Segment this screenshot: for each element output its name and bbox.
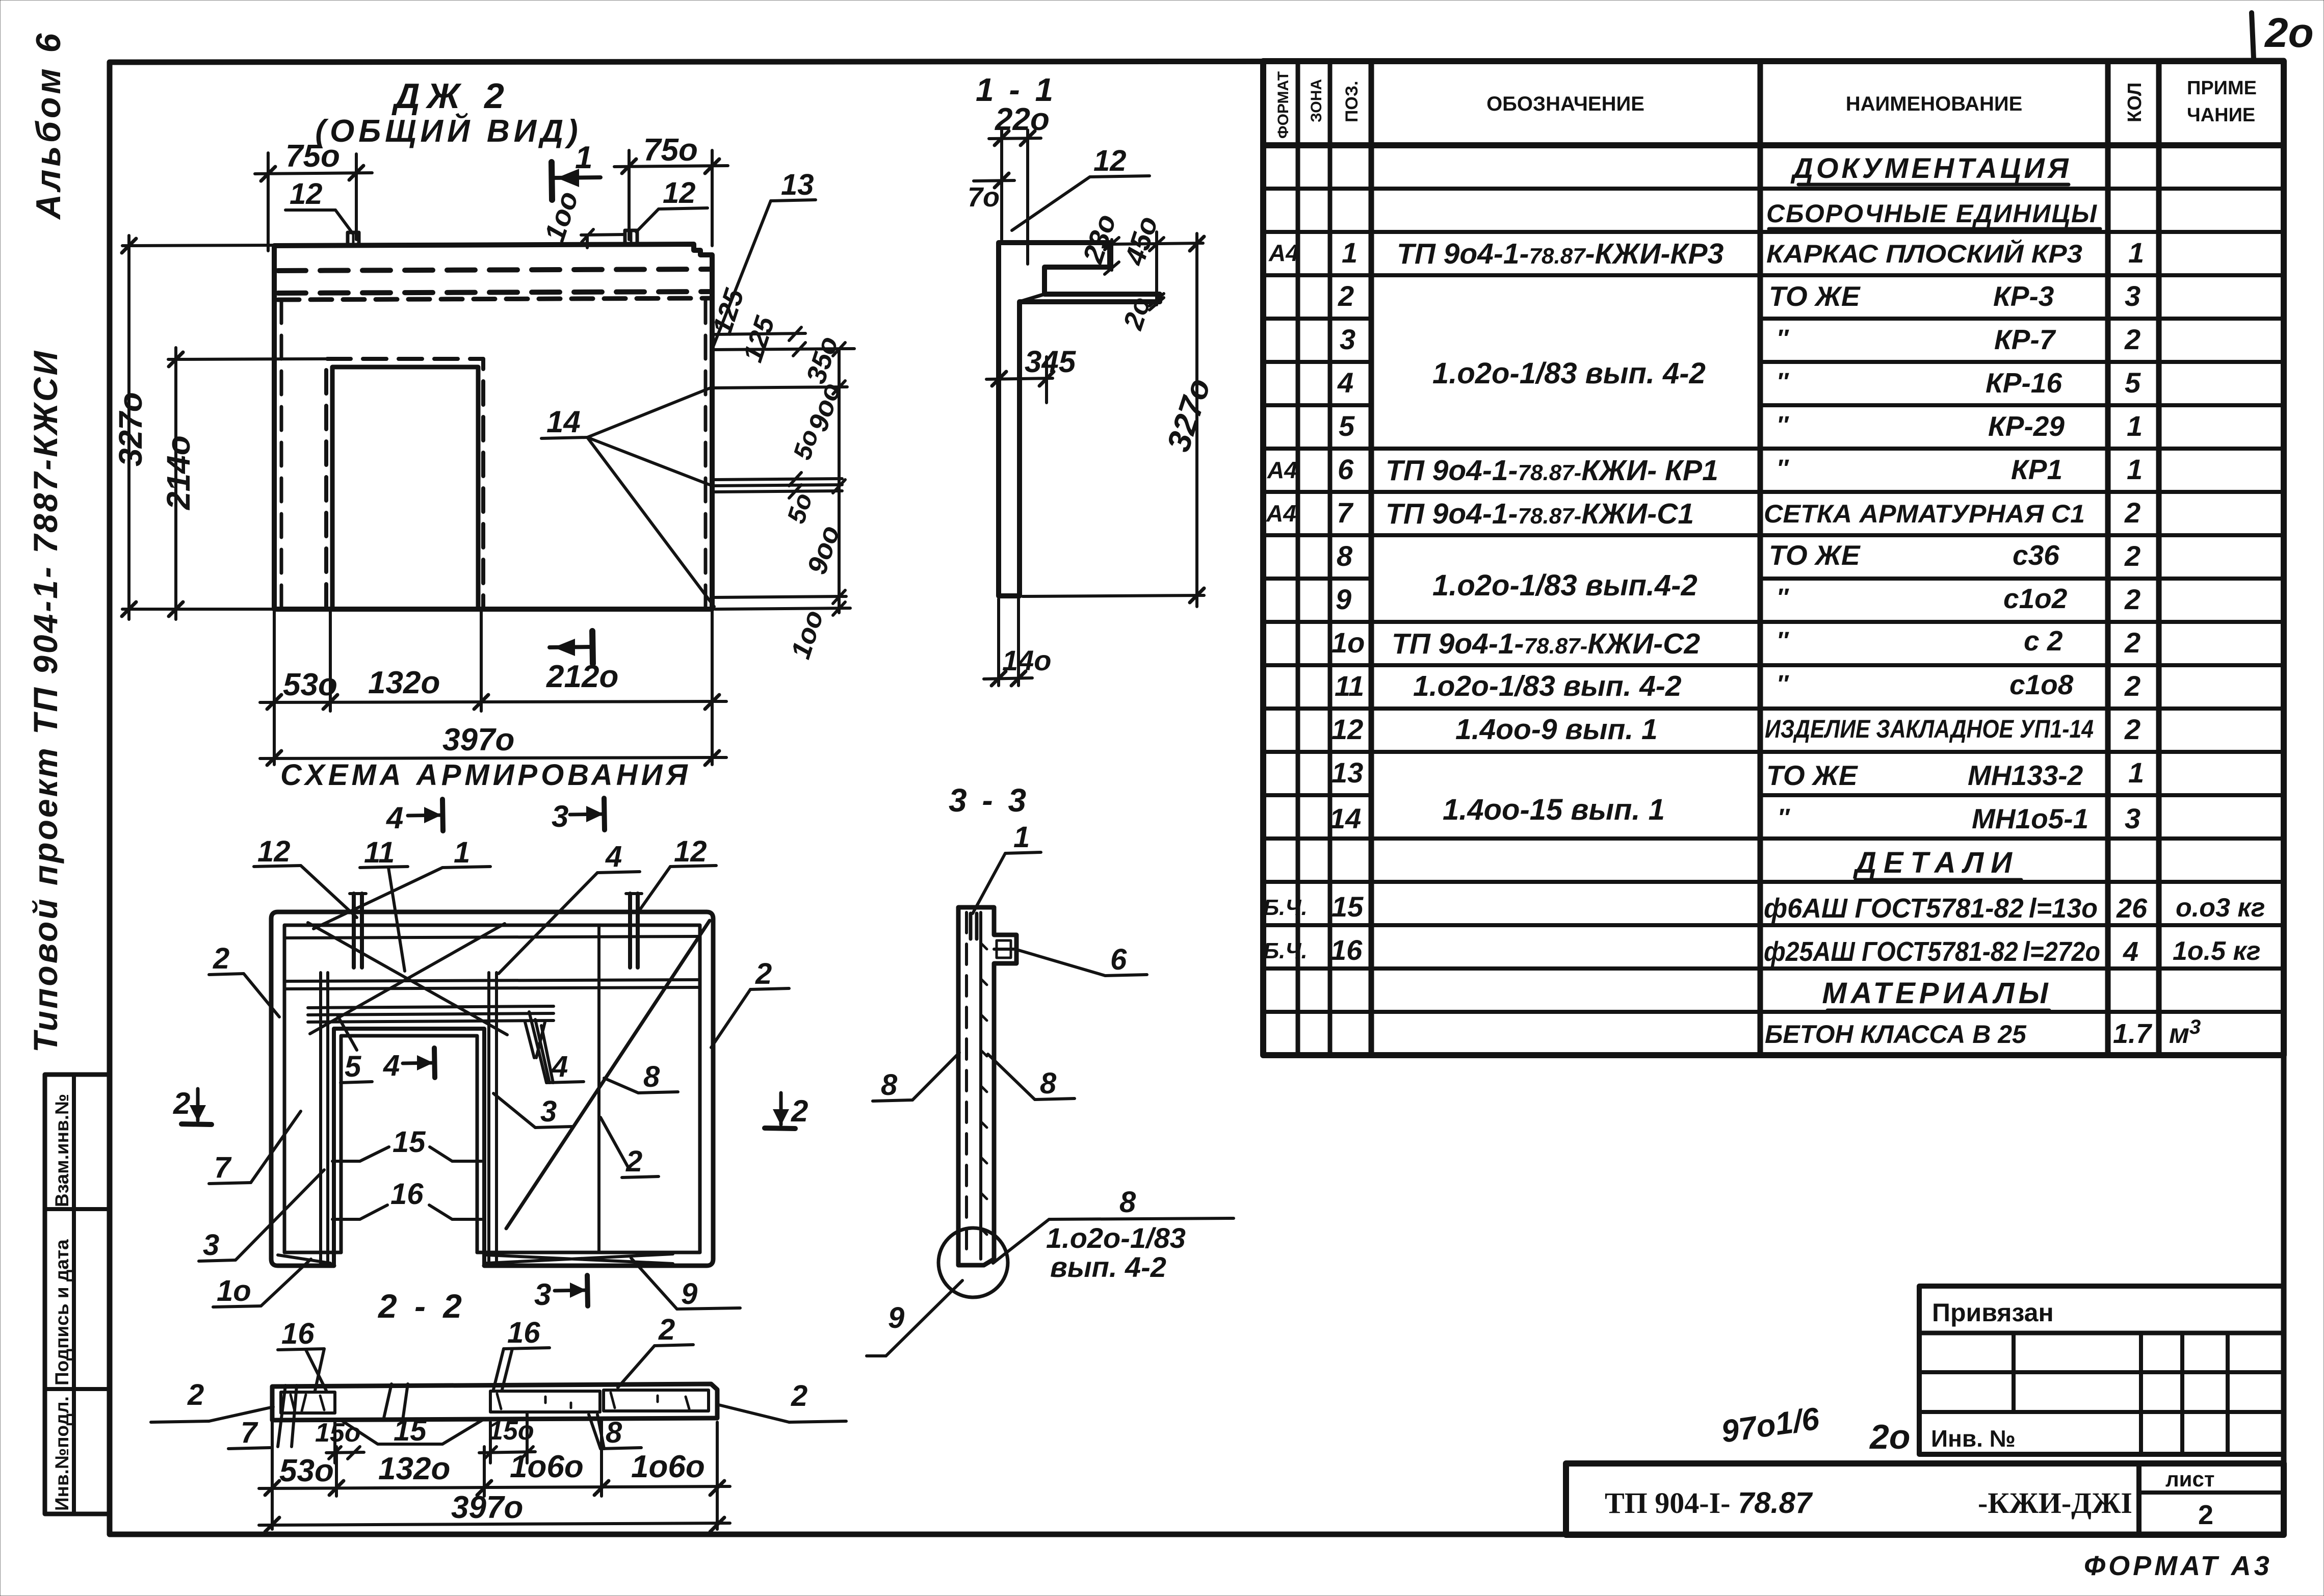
label 12 right (636, 176, 708, 232)
1-1 dim 230 rotated (1076, 210, 1122, 274)
svg-text:75о: 75о (285, 139, 340, 174)
svg-text:2: 2 (2124, 540, 2140, 572)
svg-text:ПОЗ.: ПОЗ. (1342, 81, 1362, 122)
scheme label 7 (209, 1111, 301, 1184)
panel side hidden lines (281, 300, 706, 608)
svg-text:2: 2 (625, 1145, 642, 1178)
svg-text:КР-7: КР-7 (1994, 324, 2056, 355)
svg-text:7: 7 (1337, 496, 1354, 529)
svg-text:5: 5 (2125, 367, 2141, 399)
svg-text:ЧАНИЕ: ЧАНИЕ (2187, 104, 2255, 126)
svg-text:12: 12 (674, 835, 707, 868)
section mark 4 (inside door) (383, 1048, 435, 1082)
svg-text:ТП 9о4-1-78.87-КЖИ- КР1: ТП 9о4-1-78.87-КЖИ- КР1 (1386, 454, 1718, 487)
формат А3 (2084, 1551, 2273, 1581)
svg-text:11: 11 (364, 836, 395, 869)
table section heading: Сборочные единицы (1766, 199, 2100, 229)
svg-text:15о: 15о (315, 1418, 361, 1448)
svg-text:26: 26 (2116, 893, 2148, 924)
svg-text:1о: 1о (1331, 626, 1365, 659)
svg-text:2: 2 (2124, 713, 2140, 745)
svg-text:3: 3 (1340, 323, 1355, 355)
2-2 dim 3970 (259, 1490, 730, 1532)
svg-text:22о: 22о (995, 102, 1050, 137)
svg-text:16: 16 (281, 1317, 315, 1350)
svg-text:ТО ЖЕ: ТО ЖЕ (1769, 539, 1861, 571)
table section heading: Материалы (1822, 977, 2052, 1010)
left margin stamp box (45, 1075, 110, 1514)
svg-text:Альбом 6: Альбом 6 (29, 31, 68, 220)
svg-text:1о: 1о (217, 1274, 251, 1307)
table row 14 + merged cell (1329, 793, 2140, 834)
dim 100 rotated (embed offset) (538, 188, 625, 248)
svg-text:ф25АШ ГОСТ5781-82 l=272о: ф25АШ ГОСТ5781-82 l=272о (1764, 936, 2100, 967)
svg-text:1оо: 1оо (538, 188, 584, 246)
svg-text:12: 12 (1093, 144, 1127, 177)
svg-text:2: 2 (187, 1378, 204, 1411)
svg-text:КОЛ: КОЛ (2124, 83, 2146, 122)
svg-text:14: 14 (1329, 802, 1361, 834)
GV dim 3970 (260, 722, 726, 765)
2-2 dims 530/1320/1060/1060 (259, 1421, 730, 1529)
scheme label 4 top right (499, 840, 640, 974)
scheme embed 12 right (626, 894, 642, 967)
svg-text:ПРИМЕ: ПРИМЕ (2187, 77, 2257, 99)
svg-text:2: 2 (213, 942, 229, 975)
привязан box (1919, 1286, 2284, 1454)
table row 16 (1263, 934, 2261, 967)
scheme label 1 (314, 836, 490, 929)
svg-text:ЗОНА: ЗОНА (1308, 79, 1325, 122)
svg-text:132о: 132о (378, 1451, 450, 1486)
svg-text:А4: А4 (1268, 240, 1299, 266)
table row 8 (1337, 539, 2140, 572)
svg-text:с1о2: с1о2 (2003, 583, 2068, 614)
section mark 3 (top) (552, 798, 605, 833)
2-2 bar outline (272, 1384, 717, 1420)
table row 10 (1331, 625, 2140, 660)
dim 2140 vertical (160, 348, 329, 619)
2-2 label 8 (589, 1415, 641, 1449)
svg-text:1.о2о-1/83 вып. 4-2: 1.о2о-1/83 вып. 4-2 (1432, 357, 1706, 390)
svg-text:с 2: с 2 (2024, 625, 2063, 657)
table row 5 (1339, 410, 2143, 442)
svg-text:м3: м3 (2169, 1016, 2201, 1049)
1-1 dim 450 rotated (1113, 212, 1203, 310)
section mark 1 (bottom) (550, 631, 593, 664)
svg-text:″: ″ (1777, 671, 1789, 698)
section mark 4 (top) (386, 799, 443, 835)
svg-text:ТО ЖЕ: ТО ЖЕ (1766, 760, 1859, 791)
svg-text:Привязан: Привязан (1932, 1298, 2054, 1327)
svg-text:″: ″ (1777, 412, 1789, 439)
svg-text:1: 1 (2127, 410, 2143, 442)
right side tick lines 125/125 (707, 285, 854, 387)
svg-text:МАТЕРИАЛЫ: МАТЕРИАЛЫ (1822, 977, 2052, 1010)
table row: бетон (1765, 1016, 2201, 1049)
svg-text:1.о2о-1/83: 1.о2о-1/83 (1046, 1222, 1186, 1254)
scheme label 3 left bottom (199, 1170, 324, 1262)
svg-text:МН1о5-1: МН1о5-1 (1972, 803, 2088, 834)
svg-text:5о: 5о (781, 490, 818, 527)
svg-text:ИЗДЕЛИЕ ЗАКЛАДНОЕ УП1-14: ИЗДЕЛИЕ ЗАКЛАДНОЕ УП1-14 (1765, 715, 2094, 743)
2-2 label 7 (228, 1385, 297, 1449)
3-3 embed 6 detail (994, 940, 1016, 958)
3-3 label 8 right (988, 1054, 1075, 1100)
svg-text:ТО ЖЕ: ТО ЖЕ (1769, 280, 1861, 312)
scheme label 3 right of door (493, 1093, 572, 1128)
svg-text:КР-16: КР-16 (1986, 367, 2062, 399)
embed item 12 left (top) (348, 232, 359, 245)
scheme bottom strip diagonals right (487, 1254, 673, 1264)
svg-text:СЕТКА АРМАТУРНАЯ С1: СЕТКА АРМАТУРНАЯ С1 (1764, 500, 2085, 528)
svg-text:15: 15 (393, 1126, 426, 1159)
svg-text:о.о3 кг: о.о3 кг (2176, 893, 2265, 923)
svg-text:8: 8 (606, 1416, 622, 1449)
2-2 label 16 mid above (493, 1316, 550, 1390)
svg-text:ДОКУМЕНТАЦИЯ: ДОКУМЕНТАЦИЯ (1790, 152, 2071, 184)
svg-text:5о: 5о (788, 426, 824, 463)
scheme embed 12 left (350, 894, 366, 967)
dim 750 left (255, 139, 372, 251)
svg-text:ФОРМАТ А3: ФОРМАТ А3 (2084, 1551, 2273, 1581)
right side 50/50 cluster (714, 426, 842, 527)
table row 11 (1335, 669, 2140, 702)
scheme title (280, 758, 691, 792)
svg-text:6: 6 (1338, 453, 1354, 485)
section 1-1 body (999, 243, 1160, 596)
scheme inner contour (284, 925, 700, 1252)
svg-text:2: 2 (2124, 626, 2140, 659)
svg-text:ТП 904-I- 78.87: ТП 904-I- 78.87 (1605, 1486, 1813, 1520)
3-3 label 8 left (873, 1053, 959, 1102)
svg-text:Инв. №: Инв. № (1931, 1425, 2016, 1452)
svg-text:4: 4 (605, 840, 622, 873)
3-3 body (958, 907, 1016, 1265)
scheme label 12 left (254, 835, 357, 918)
svg-text:3 - 3: 3 - 3 (949, 782, 1029, 819)
svg-text:″: ″ (1777, 584, 1789, 611)
svg-text:15: 15 (394, 1414, 427, 1447)
svg-text:НАИМЕНОВАНИЕ: НАИМЕНОВАНИЕ (1846, 93, 2023, 115)
table row 4 + merged cell 1.020-1/83 вып.4-2 (1337, 357, 2141, 399)
svg-text:8: 8 (1040, 1067, 1057, 1100)
scheme crossing leaders top-left (308, 923, 507, 1035)
svg-text:КР1: КР1 (2011, 454, 2062, 485)
svg-text:СХЕМА АРМИРОВАНИЯ: СХЕМА АРМИРОВАНИЯ (280, 758, 691, 792)
2-2 left frame box (281, 1392, 335, 1413)
table row 13 (1331, 756, 2144, 791)
scheme label 12 right (637, 835, 716, 913)
svg-text:8: 8 (643, 1060, 660, 1093)
svg-text:2 - 2: 2 - 2 (377, 1287, 466, 1325)
svg-text:16: 16 (507, 1316, 540, 1349)
svg-text:345: 345 (1025, 345, 1077, 379)
svg-text:397о: 397о (451, 1490, 523, 1525)
2-2 middle frame box (490, 1391, 600, 1412)
svg-text:132о: 132о (368, 665, 440, 700)
section mark 1 (top) (552, 140, 600, 200)
3-3 top frame ticks (971, 913, 977, 939)
2-2 label 2 above (618, 1313, 693, 1388)
table row 12 (1331, 713, 2140, 746)
svg-text:″: ″ (1777, 325, 1789, 352)
svg-text:ДЕТАЛИ: ДЕТАЛИ (1852, 846, 2019, 879)
page number 20 top right (2252, 10, 2314, 59)
svg-text:КР-3: КР-3 (1993, 280, 2054, 312)
svg-text:16: 16 (390, 1178, 424, 1211)
svg-text:3: 3 (540, 1095, 557, 1128)
svg-text:″: ″ (1777, 627, 1789, 655)
svg-text:1: 1 (2127, 453, 2143, 485)
1-1 dim 220 (989, 102, 1050, 264)
1-1 dim 3270 (1023, 233, 1217, 607)
svg-text:-КЖИ-ДЖI: -КЖИ-ДЖI (1978, 1486, 2132, 1520)
2-2 label 16 left above (278, 1317, 326, 1391)
svg-text:ТП 9о4-1-78.87-КЖИ-С2: ТП 9о4-1-78.87-КЖИ-С2 (1392, 627, 1700, 660)
scheme label 4 right of door (529, 1012, 584, 1083)
svg-text:14: 14 (546, 405, 581, 439)
svg-text:1о6о: 1о6о (631, 1449, 705, 1484)
table row 7 (1266, 496, 2140, 530)
svg-text:12: 12 (1331, 713, 1363, 745)
svg-text:Инв.№подл.: Инв.№подл. (51, 1396, 72, 1511)
door opening hidden contour (326, 359, 483, 608)
table header labels (1275, 71, 2257, 139)
handwritten 20 (1869, 1418, 1910, 1456)
svg-text:125: 125 (737, 312, 780, 366)
svg-text:2: 2 (2124, 496, 2140, 529)
left margin vertical text: Альбом 6 (29, 31, 68, 220)
svg-text:9: 9 (888, 1301, 904, 1335)
svg-text:2: 2 (1338, 280, 1354, 312)
svg-text:7о: 7о (968, 182, 1000, 213)
scheme label 5 (337, 1015, 372, 1083)
svg-text:2: 2 (173, 1086, 190, 1120)
svg-text:ОБОЗНАЧЕНИЕ: ОБОЗНАЧЕНИЕ (1486, 93, 1644, 115)
svg-text:14о: 14о (1002, 644, 1052, 676)
svg-text:4: 4 (1337, 367, 1353, 399)
svg-text:А4: А4 (1266, 500, 1296, 527)
scheme label 11 (360, 836, 408, 971)
right side vertical dim line 350/900/900/100 (714, 349, 847, 615)
svg-text:4: 4 (2123, 936, 2138, 967)
dim 3270 vertical (112, 236, 278, 619)
2-2 label 2 far right (719, 1379, 846, 1422)
svg-text:5: 5 (345, 1050, 361, 1083)
svg-text:лист: лист (2165, 1467, 2214, 1491)
section 1-1 title (976, 71, 1056, 108)
svg-text:″: ″ (1777, 455, 1789, 482)
svg-text:ТП 9о4-1-78.87-КЖИ-С1: ТП 9о4-1-78.87-КЖИ-С1 (1386, 498, 1694, 530)
svg-text:КАРКАС ПЛОСКИЙ КР3: КАРКАС ПЛОСКИЙ КР3 (1766, 239, 2082, 268)
svg-text:1: 1 (1342, 237, 1357, 269)
svg-text:212о: 212о (546, 659, 618, 694)
svg-text:23о: 23о (1076, 210, 1122, 267)
scheme door contour (334, 1029, 484, 1266)
svg-text:МН133-2: МН133-2 (1968, 760, 2083, 791)
table row 9 + merged cell (1336, 569, 2140, 615)
embed item 12 right (top) (625, 230, 637, 244)
svg-text:вып. 4-2: вып. 4-2 (1050, 1251, 1166, 1283)
2-2 label 15 (383, 1384, 427, 1447)
section mark 3 (bottom) (534, 1275, 588, 1312)
3-3 callout 8 / 1.020-1/83 вып.4-2 (993, 1186, 1234, 1283)
table grid (1263, 61, 2284, 1055)
svg-text:Подпись и дата: Подпись и дата (51, 1239, 72, 1385)
svg-text:3: 3 (2125, 280, 2140, 312)
scheme label 10 (213, 1259, 311, 1307)
main title bar (1566, 1463, 2284, 1535)
svg-text:214о: 214о (160, 435, 197, 510)
svg-text:1оо: 1оо (785, 607, 829, 663)
2-2 label 2 far left (151, 1378, 273, 1422)
svg-text:3: 3 (534, 1277, 551, 1312)
1-1 dim 20 rotated (1117, 293, 1164, 333)
svg-text:6: 6 (1110, 943, 1127, 976)
label 14 with leaders (541, 387, 714, 607)
svg-text:2: 2 (2198, 1500, 2213, 1530)
svg-text:8: 8 (881, 1068, 898, 1102)
section 3-3 title (949, 782, 1029, 819)
section mark 2 (right) (765, 1093, 808, 1129)
GV bottom dims 530/1320/2120 (260, 612, 726, 765)
scheme label 9 (631, 1258, 740, 1311)
svg-text:12: 12 (257, 835, 291, 868)
scheme label 16 with V leader (332, 1178, 482, 1219)
svg-text:8: 8 (1119, 1186, 1136, 1219)
label 12 left (285, 177, 353, 233)
label 13 (713, 168, 816, 347)
left margin vertical text: Типовой проект (27, 349, 64, 1053)
1-1 label 12 (1012, 144, 1150, 230)
svg-text:13: 13 (781, 168, 814, 201)
table row 6 (1267, 453, 2143, 487)
svg-text:75о: 75о (643, 133, 698, 168)
svg-text:ТП 9о4-1-78.87-КЖИ-КР3: ТП 9о4-1-78.87-КЖИ-КР3 (1397, 238, 1724, 270)
2-2 door notch trapezoid (341, 1420, 482, 1444)
svg-text:Типовой проект ТП 904-1- 788: Типовой проект ТП 904-1- 7887-КЖСИ (27, 349, 64, 1053)
svg-text:53о: 53о (283, 667, 337, 702)
svg-text:ф6АШ ГОСТ5781-82 l=13о: ф6АШ ГОСТ5781-82 l=13о (1764, 893, 2098, 924)
right side 900/100 bottom (714, 522, 850, 663)
section 2-2 title (377, 1287, 466, 1325)
svg-text:12: 12 (663, 176, 696, 210)
dim 750 right (614, 133, 728, 246)
svg-text:1: 1 (2128, 756, 2144, 789)
scheme lintel bars above door (308, 1006, 554, 1058)
svg-text:1: 1 (454, 836, 470, 869)
svg-text:11: 11 (1335, 670, 1364, 702)
svg-text:4: 4 (386, 801, 403, 835)
svg-text:(ОБЩИЙ ВИД): (ОБЩИЙ ВИД) (315, 113, 582, 149)
svg-text:″: ″ (1777, 369, 1789, 396)
svg-text:1о.5 кг: 1о.5 кг (2173, 936, 2261, 966)
svg-text:1: 1 (575, 140, 592, 175)
svg-text:1.о2о-1/83 вып. 4-2: 1.о2о-1/83 вып. 4-2 (1413, 670, 1682, 702)
table row 1 (1268, 237, 2144, 270)
svg-text:1.о2о-1/83 вып.4-2: 1.о2о-1/83 вып.4-2 (1432, 569, 1698, 602)
scheme label 15 with V leader (332, 1126, 482, 1161)
table section heading: Документация (1790, 152, 2071, 185)
svg-text:97о1/6: 97о1/6 (1719, 1401, 1821, 1450)
svg-text:53о: 53о (279, 1453, 334, 1488)
panel cap hidden lines (278, 269, 712, 300)
svg-text:8: 8 (1337, 540, 1353, 572)
3-3 label 6 (1019, 943, 1147, 976)
1-1 dim 140 (984, 599, 1052, 686)
2-2 right frame box (604, 1390, 709, 1411)
scheme top band bars (284, 936, 700, 989)
table row 2 (1338, 280, 2140, 312)
svg-text:16: 16 (1330, 934, 1363, 966)
3-3 label 1 (973, 821, 1041, 913)
scheme label 2 left (209, 942, 279, 1017)
scheme door edge bars right (489, 973, 497, 1263)
scheme label 2 right (711, 957, 789, 1048)
svg-text:Взам.инв.№: Взам.инв.№ (51, 1094, 72, 1207)
svg-text:А4: А4 (1267, 457, 1297, 483)
door opening solid contour (332, 367, 478, 609)
svg-text:9: 9 (681, 1277, 697, 1311)
svg-text:1.7: 1.7 (2113, 1018, 2153, 1049)
3-3 bottom circle (938, 1228, 1008, 1297)
2-2 dim 150 right (479, 1412, 535, 1463)
svg-text:327о: 327о (112, 392, 149, 466)
3-3 label 9 (867, 1280, 962, 1356)
svg-text:9: 9 (1336, 583, 1351, 615)
svg-text:3: 3 (552, 799, 568, 833)
svg-text:2: 2 (2124, 323, 2140, 355)
svg-text:2: 2 (2124, 670, 2140, 702)
svg-text:1: 1 (1013, 821, 1030, 854)
svg-text:2: 2 (791, 1379, 807, 1412)
svg-text:1о6о: 1о6о (510, 1449, 584, 1484)
svg-text:ДЖ 2: ДЖ 2 (391, 76, 511, 116)
scheme label 2 mid right (600, 1117, 659, 1178)
section mark 2 (left) (173, 1086, 212, 1124)
svg-text:327о: 327о (1160, 374, 1218, 456)
scheme door edge bars left (321, 973, 328, 1263)
scheme big diagonal (item 8) (506, 921, 710, 1228)
3-3 inner mesh dashed (967, 912, 987, 1259)
svg-text:1: 1 (2128, 237, 2144, 269)
svg-text:БЕТОН КЛАССА В 25: БЕТОН КЛАССА В 25 (1765, 1020, 2027, 1049)
svg-text:3: 3 (203, 1228, 219, 1262)
1-1 dim 345 (986, 345, 1077, 403)
svg-text:Б.Ч.: Б.Ч. (1263, 895, 1308, 920)
table row 3 (1340, 323, 2140, 355)
svg-text:2: 2 (755, 957, 772, 990)
svg-text:5: 5 (1339, 410, 1355, 442)
svg-text:″: ″ (1778, 804, 1790, 831)
svg-text:4: 4 (383, 1049, 400, 1082)
svg-text:2: 2 (658, 1313, 675, 1346)
svg-text:СБОРОЧНЫЕ ЕДИНИЦЫ: СБОРОЧНЫЕ ЕДИНИЦЫ (1766, 199, 2098, 228)
svg-text:2о: 2о (1869, 1418, 1910, 1456)
svg-text:ФОРМАТ: ФОРМАТ (1275, 71, 1292, 139)
svg-text:2: 2 (2124, 583, 2140, 615)
svg-text:12: 12 (290, 177, 323, 211)
svg-text:7: 7 (214, 1151, 232, 1184)
table row lines (1263, 189, 2284, 1012)
svg-text:1.4оо-15 вып. 1: 1.4оо-15 вып. 1 (1443, 793, 1665, 826)
svg-text:с1о8: с1о8 (2009, 669, 2074, 700)
panel outline (274, 244, 712, 609)
table row 15 (1263, 891, 2265, 924)
svg-text:Б.Ч.: Б.Ч. (1263, 938, 1308, 963)
scheme bottom strip diagonal left (278, 1255, 330, 1263)
